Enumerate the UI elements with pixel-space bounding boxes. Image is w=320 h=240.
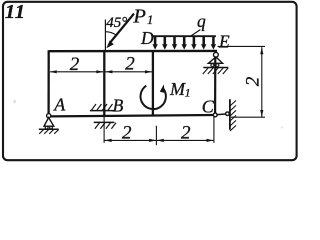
svg-text:2: 2: [122, 122, 132, 143]
right dimension: top extension line: [218, 45, 266, 47]
svg-text:A: A: [53, 95, 66, 115]
svg-text:1: 1: [185, 86, 191, 100]
support C: link bar: [217, 113, 226, 116]
support B: upper hatching: [91, 104, 112, 110]
support A: triangle: [44, 118, 54, 127]
svg-text:2: 2: [125, 53, 135, 74]
svg-text:B: B: [113, 96, 124, 116]
label q pointer: [190, 30, 200, 37]
support C: pin circle at beam end: [213, 113, 217, 117]
top dimension line left segment: [50, 71, 103, 73]
svg-text:1: 1: [15, 1, 25, 23]
svg-text:D: D: [140, 28, 154, 48]
support E: hatching: [203, 68, 229, 74]
moment M1 arrowhead: [160, 84, 165, 93]
extension line below D: [155, 126, 157, 146]
distributed load q: arrows: [152, 37, 216, 50]
middle column: [103, 50, 105, 117]
support A: ground line: [39, 128, 59, 130]
right dimension line: [261, 47, 263, 117]
support A: hatching: [39, 130, 58, 134]
force P1: arrowhead: [106, 41, 114, 49]
svg-text:45°: 45°: [106, 15, 127, 31]
support C: wall line: [229, 99, 231, 130]
support A: rollers: [45, 126, 48, 129]
force P1: angle arc: [105, 32, 116, 36]
svg-text:2: 2: [181, 122, 191, 143]
left column: [47, 50, 49, 114]
column D: [152, 50, 154, 116]
column E-C: [214, 51, 216, 113]
extension line below C: [213, 117, 215, 143]
support E: rollers: [211, 64, 214, 67]
support B: lower hatching: [95, 123, 116, 129]
support B: lower plate: [94, 121, 115, 123]
moment M1 arc: [141, 86, 166, 109]
svg-text:2: 2: [243, 76, 264, 86]
svg-text:P: P: [132, 5, 146, 27]
support E: pin circle: [214, 52, 219, 57]
extension line below B: [103, 117, 105, 143]
support B: upper plate: [90, 110, 115, 112]
force P1: arrow shaft: [111, 14, 134, 42]
top dimension line right segment: [105, 71, 151, 73]
svg-text:C: C: [202, 97, 215, 117]
right dimension: bottom extension line: [231, 116, 265, 118]
support C: wall hatching: [230, 100, 236, 131]
support A: pin circle: [47, 114, 51, 118]
svg-text:1: 1: [5, 1, 15, 23]
distributed load q: top line: [153, 35, 216, 37]
support E: triangle: [208, 57, 222, 63]
border frame: [3, 2, 297, 160]
svg-text:E: E: [218, 32, 230, 52]
svg-text:q: q: [197, 11, 206, 31]
support E: ground line: [203, 67, 228, 69]
bottom dimension line left segment: [105, 139, 157, 141]
svg-text:2: 2: [70, 54, 80, 75]
faint paper smudge left: [13, 100, 16, 103]
force P1: vertical reference line: [104, 20, 106, 51]
svg-text:M: M: [169, 79, 186, 99]
bottom beam: [50, 115, 214, 116]
svg-text:1: 1: [147, 12, 154, 27]
support C: wall pin circle: [226, 112, 230, 116]
top beam: [49, 50, 217, 53]
bottom dimension line right segment: [157, 139, 214, 141]
